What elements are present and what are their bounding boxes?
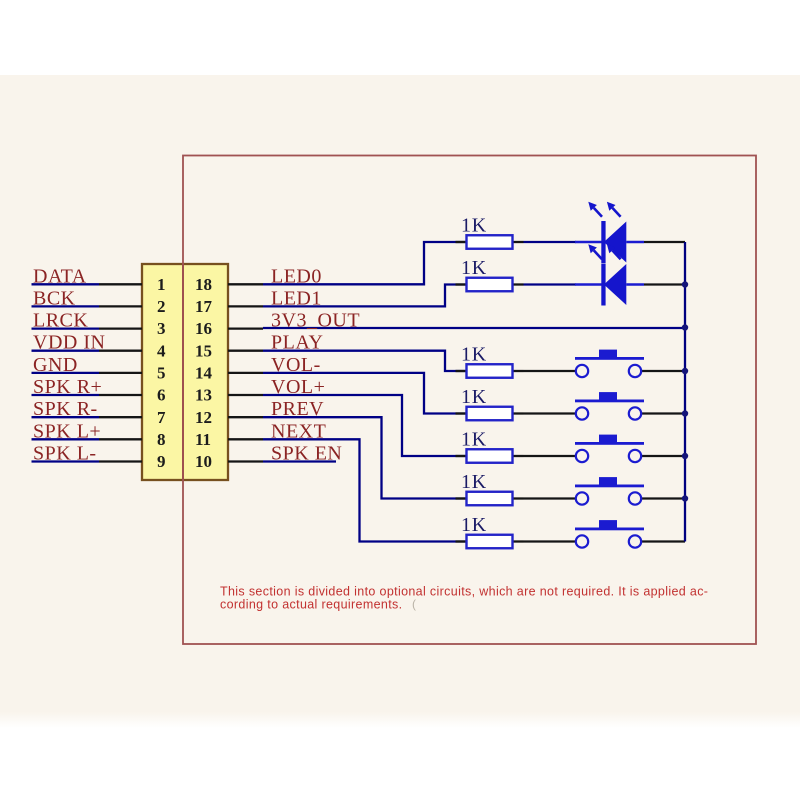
svg-text:This section is divided into o: This section is divided into optional ci… xyxy=(220,585,708,599)
wire pin15 stub xyxy=(228,350,263,352)
svg-text:1K: 1K xyxy=(461,386,487,408)
svg-text:5: 5 xyxy=(157,364,166,383)
svg-text:3: 3 xyxy=(157,319,166,338)
node rail-S1 xyxy=(682,368,688,374)
svg-text:1K: 1K xyxy=(461,514,487,536)
svg-text:2: 2 xyxy=(157,297,166,316)
svg-text:17: 17 xyxy=(195,297,213,316)
svg-text:4: 4 xyxy=(157,342,166,361)
svg-text:SPK R+: SPK R+ xyxy=(33,376,102,398)
wire pin10 stub xyxy=(228,460,263,462)
resistor R4 xyxy=(456,386,524,420)
svg-text:SPK L+: SPK L+ xyxy=(33,420,101,442)
svg-text:10: 10 xyxy=(195,452,212,471)
pushbutton S2 xyxy=(524,392,686,420)
svg-text:9: 9 xyxy=(157,452,166,471)
wire LED1 run xyxy=(263,285,466,307)
svg-text:1K: 1K xyxy=(461,344,487,366)
svg-text:15: 15 xyxy=(195,342,212,361)
node rail-S2 xyxy=(682,410,688,416)
svg-text:11: 11 xyxy=(195,430,211,449)
svg-text:GND: GND xyxy=(33,354,78,376)
pushbutton S1 xyxy=(524,350,686,378)
svg-text:LED0: LED0 xyxy=(271,265,322,287)
svg-text:VDD IN: VDD IN xyxy=(33,332,105,354)
wire BCK underline xyxy=(32,305,100,307)
LED D2 xyxy=(524,244,686,305)
resistor R1 xyxy=(456,215,524,249)
resistor R3 xyxy=(456,344,524,378)
junction dots xyxy=(682,281,688,501)
node rail-S3 xyxy=(682,453,688,459)
wire SPK_L- underline xyxy=(32,460,100,462)
right routed wires (navy) xyxy=(263,242,685,542)
wire VOL+ run xyxy=(263,395,466,456)
svg-text:3V3_OUT: 3V3_OUT xyxy=(271,310,360,332)
wire PLAY run xyxy=(263,351,466,371)
svg-text:VOL+: VOL+ xyxy=(271,376,325,398)
wire pin8 stub xyxy=(99,438,142,440)
left net underlines (navy) xyxy=(32,284,100,461)
svg-text:6: 6 xyxy=(157,386,166,405)
node rail-S4 xyxy=(682,495,688,501)
svg-text:BCK: BCK xyxy=(33,287,76,309)
LED D1 xyxy=(524,202,686,263)
wire NEXT run xyxy=(263,439,466,541)
svg-text:12: 12 xyxy=(195,408,212,427)
wire SPK_R+ underline xyxy=(32,394,100,396)
svg-text:PREV: PREV xyxy=(271,398,324,420)
wire SPK_EN underline xyxy=(263,460,336,462)
wire pin5 stub xyxy=(99,372,142,374)
wire pin3 stub xyxy=(99,327,142,329)
wire 3V3_OUT run xyxy=(263,327,685,329)
resistor R7 xyxy=(456,514,524,548)
right rail xyxy=(684,242,686,542)
wire VDD_IN underline xyxy=(32,350,100,352)
node rail-3V3 xyxy=(682,324,688,330)
pushbutton S3 xyxy=(524,435,686,463)
wire pin13 stub xyxy=(228,394,263,396)
wire SPK_L+ underline xyxy=(32,438,100,440)
svg-text:VOL-: VOL- xyxy=(271,354,321,376)
svg-text:SPK EN: SPK EN xyxy=(271,443,342,465)
svg-text:18: 18 xyxy=(195,275,212,294)
node rail-D2 xyxy=(682,281,688,287)
wire pin11 stub xyxy=(228,438,263,440)
wire LED0 run xyxy=(263,242,466,284)
wire DATA underline xyxy=(32,283,100,285)
svg-text:DATA: DATA xyxy=(33,265,87,287)
svg-text:1K: 1K xyxy=(461,471,487,493)
connector middle divider xyxy=(182,264,184,480)
left pin stubs (black) xyxy=(99,284,142,461)
wire pin17 stub xyxy=(228,305,263,307)
resistor R5 xyxy=(456,429,524,463)
svg-text:1K: 1K xyxy=(461,429,487,451)
optional-section border xyxy=(183,156,756,645)
svg-text:LRCK: LRCK xyxy=(33,310,88,332)
wire pin16 stub xyxy=(228,327,263,329)
svg-text:NEXT: NEXT xyxy=(271,420,326,442)
wire pin1 stub xyxy=(99,283,142,285)
wire pin18 stub xyxy=(228,283,263,285)
svg-text:1: 1 xyxy=(157,275,166,294)
resistor R2 xyxy=(456,257,524,291)
resistor R6 xyxy=(456,471,524,505)
wire pin6 stub xyxy=(99,394,142,396)
wire VOL- run xyxy=(263,373,466,414)
svg-text:PLAY: PLAY xyxy=(271,332,323,354)
svg-text:SPK R-: SPK R- xyxy=(33,398,98,420)
svg-text:13: 13 xyxy=(195,386,212,405)
svg-text:cording to actual requirements: cording to actual requirements. xyxy=(220,598,402,612)
wire pin2 stub xyxy=(99,305,142,307)
svg-text:SPK L-: SPK L- xyxy=(33,443,97,465)
wire pin9 stub xyxy=(99,460,142,462)
right pin stubs (black) xyxy=(228,284,263,461)
wire LRCK underline xyxy=(32,327,100,329)
pushbutton S4 xyxy=(524,477,686,505)
svg-text:1K: 1K xyxy=(461,257,487,279)
svg-text:LED1: LED1 xyxy=(271,287,322,309)
wire GND underline xyxy=(32,372,100,374)
svg-text:14: 14 xyxy=(195,364,213,383)
wire SPK_R- underline xyxy=(32,416,100,418)
svg-text:1K: 1K xyxy=(461,215,487,237)
wire pin12 stub xyxy=(228,416,263,418)
pushbutton S5 xyxy=(524,520,686,548)
wire pin7 stub xyxy=(99,416,142,418)
svg-text:16: 16 xyxy=(195,319,212,338)
wire pin14 stub xyxy=(228,372,263,374)
wire PREV run xyxy=(263,417,466,498)
svg-text:8: 8 xyxy=(157,430,166,449)
svg-text:7: 7 xyxy=(157,408,166,427)
wire pin4 stub xyxy=(99,350,142,352)
connector J1 body xyxy=(142,264,228,480)
svg-text:(: ( xyxy=(412,597,416,611)
